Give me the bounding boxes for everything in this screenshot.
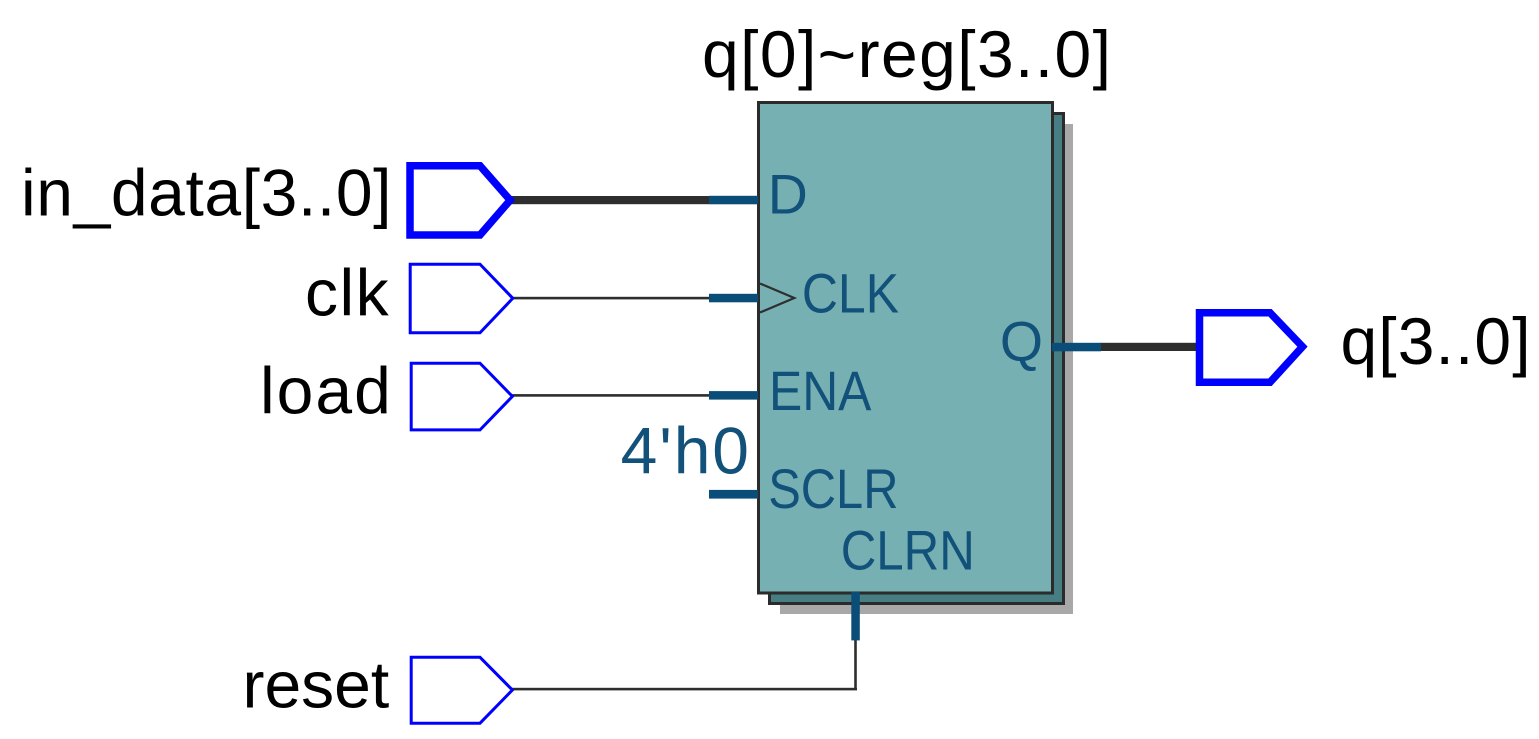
input port reset (single bit, thin) [411,657,512,723]
pin stub Q [1052,343,1101,352]
svg-text:CLRN: CLRN [841,519,975,581]
output port q[3..0] (bus, thick) [1200,313,1303,383]
wire reset to CLRN horizontal [511,688,857,691]
svg-text:in_data[3..0]: in_data[3..0] [21,156,392,230]
svg-text:SCLR: SCLR [768,458,898,520]
register bank q[0]~reg[3..0] shadow [780,124,1073,614]
pin stub ENA [709,391,758,400]
pin stub D [709,196,758,205]
svg-text:D: D [768,164,808,226]
register bank back box [770,114,1064,604]
svg-text:4'h0: 4'h0 [621,414,751,488]
pin stub CLK [709,294,758,303]
wire reset to CLRN vertical [854,639,857,689]
register U1 main box [759,103,1053,594]
pin stub SCLR [709,490,758,499]
clock triangle at CLK pin [760,284,794,313]
wire load to ENA [511,394,709,397]
input port in_data[3..0] (bus, thick) [410,166,510,235]
wire Q to q output bus [1100,343,1197,351]
svg-text:q[0]~reg[3..0]: q[0]~reg[3..0] [702,17,1112,91]
svg-text:q[3..0]: q[3..0] [1341,304,1532,378]
svg-text:Q: Q [1000,311,1043,373]
svg-text:clk: clk [305,256,390,330]
wire clk to CLK [511,297,709,300]
input port load (single bit, thin) [411,363,512,430]
pin stub CLRN vertical [851,592,860,640]
svg-text:load: load [260,353,393,427]
svg-text:reset: reset [243,648,390,722]
input port clk (single bit, thin) [410,264,513,333]
svg-text:ENA: ENA [769,360,871,422]
wire in_data bus to D [509,196,709,204]
svg-text:CLK: CLK [802,263,899,325]
